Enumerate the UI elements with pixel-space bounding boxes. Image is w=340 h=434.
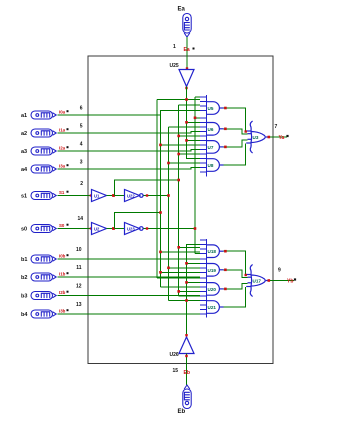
inverter U23 (select s0 stage 2) — [125, 223, 144, 235]
port Ea (input connector, top) — [183, 14, 191, 38]
svg-text:I3b: I3b — [59, 309, 66, 314]
wire bus V0 bottom connector to U20 — [157, 277, 200, 279]
junction U2 input pin — [90, 227, 92, 229]
wire connector Ea-bar to U6 — [187, 121, 200, 123]
wire Yb output — [268, 280, 294, 282]
wire U21 output to U17 input 4 — [224, 287, 246, 307]
net anchor dot I0a — [67, 110, 69, 112]
port b4 (data input) — [31, 310, 56, 318]
wire bus V4 top connector to U5 — [195, 96, 200, 98]
junction U1 input pin — [90, 194, 92, 196]
svg-text:5: 5 — [80, 124, 83, 130]
wire U2 output to U23 input — [107, 228, 125, 230]
wire connector V1 to U7 — [161, 144, 200, 146]
svg-text:3: 3 — [80, 160, 83, 166]
port a2 (data input) — [31, 129, 56, 137]
junction Eb-bar to U21 — [185, 299, 188, 302]
net anchor dot I3a — [67, 164, 69, 166]
svg-text:Ea: Ea — [178, 7, 186, 13]
wire connector V4 to U6 — [195, 117, 200, 119]
junction U18 output — [224, 250, 227, 253]
wire connector Eb-bar to U19 — [187, 262, 200, 264]
svg-text:Eb: Eb — [184, 370, 190, 376]
wire connector Eb-bar to U21 — [187, 300, 200, 302]
svg-text:9: 9 — [278, 268, 281, 274]
svg-text:10: 10 — [76, 247, 82, 253]
inverter U2 (select s0 stage 1) — [92, 223, 107, 235]
wire connector V3 to U18 — [179, 246, 200, 248]
svg-text:s0: s0 — [21, 227, 27, 233]
wire bus V1 vertical S0-bar — [160, 111, 162, 287]
junction V3 to U7 — [177, 135, 180, 138]
svg-text:4: 4 — [80, 142, 83, 148]
wire bus V4 vertical S1-bar — [194, 97, 196, 254]
svg-text:b3: b3 — [21, 294, 27, 300]
svg-text:a1: a1 — [21, 113, 27, 119]
junction U23 output pin — [146, 227, 148, 229]
wire bus Ea-bar vertical from U25 to gates — [187, 87, 200, 159]
port b1 (data input) — [31, 255, 56, 263]
port a1 (data input) — [31, 111, 56, 119]
svg-text:U17: U17 — [253, 279, 262, 284]
wire connector V1 to U18 — [161, 251, 200, 253]
junction U26 output pin — [185, 334, 187, 336]
net anchor dot I1a — [67, 128, 69, 130]
svg-text:U8: U8 — [208, 163, 214, 168]
junction V3 to U20b — [177, 290, 180, 293]
svg-text:Ya: Ya — [279, 135, 285, 141]
AND group a input bar — [206, 95, 208, 177]
junction S0 branch node — [112, 227, 115, 230]
svg-text:S1: S1 — [59, 190, 65, 195]
junction U19 output — [224, 269, 227, 272]
net anchor dot Yb — [294, 278, 296, 280]
svg-text:S0: S0 — [59, 223, 65, 228]
svg-text:11: 11 — [76, 265, 82, 271]
AND gate U18 — [207, 245, 224, 258]
AND gate U21 — [207, 301, 224, 314]
svg-text:U7: U7 — [208, 145, 214, 150]
junction S1 joins V2 — [167, 194, 170, 197]
junction U25 output pin — [185, 87, 187, 89]
svg-text:U20: U20 — [208, 287, 217, 292]
junction U17 input 1 pin — [245, 274, 247, 276]
svg-text:I1a: I1a — [59, 128, 66, 133]
svg-text:a2: a2 — [21, 131, 27, 137]
wire U18 output to U17 input 1 — [224, 251, 246, 275]
inverter U25 (enable a) — [179, 70, 194, 87]
wire I1a from port a2 to gate input — [58, 131, 200, 133]
OR gate U3 (output a) — [246, 121, 268, 153]
svg-text:U26: U26 — [170, 352, 179, 358]
wire U6 output to U3 input 2 — [224, 129, 248, 134]
AND gate U20 — [207, 283, 224, 296]
wire U5 output to U3 input 1 — [224, 108, 246, 132]
junction Ea-bar crosses V0 row — [185, 98, 188, 101]
junction Eb-bar to U20 — [185, 281, 188, 284]
wire I3a from port a4 to gate input — [58, 168, 200, 170]
AND gate U8 — [207, 159, 224, 172]
svg-text:I2b: I2b — [59, 290, 66, 295]
port b3 (data input) — [31, 292, 56, 300]
svg-text:12: 12 — [76, 284, 82, 290]
svg-text:I0b: I0b — [59, 254, 66, 259]
wire I0a from port a1 to gate input — [58, 111, 200, 116]
wire bus Eb-bar vertical from U26 up to gates — [187, 245, 200, 334]
AND gate U6 — [207, 123, 224, 136]
port a4 (data input) — [31, 165, 56, 173]
net anchor dot Ya — [286, 135, 288, 137]
svg-text:14: 14 — [77, 216, 83, 222]
wire I3b from port b4 to gate input — [58, 313, 200, 315]
net anchor dot S1 — [67, 191, 69, 193]
wire connector Eb-bar to U20 — [187, 281, 200, 283]
svg-text:15: 15 — [173, 368, 179, 374]
svg-text:b1: b1 — [21, 257, 27, 263]
junction Eb-bar to U19 — [185, 262, 188, 265]
junction S1-bar branch joins V3 — [177, 179, 180, 182]
svg-text:6: 6 — [80, 106, 83, 112]
junction V2 to U8 — [167, 162, 170, 165]
svg-text:Ea: Ea — [184, 47, 190, 53]
junction U3 input 1 pin — [245, 130, 247, 132]
schematic block boundary box — [88, 56, 273, 364]
svg-text:Eb: Eb — [178, 409, 186, 415]
svg-text:U19: U19 — [208, 268, 217, 273]
wire Ea from port down to U25 input — [186, 37, 188, 70]
svg-text:U2: U2 — [94, 226, 100, 231]
junction S0-bar branch joins V1 — [159, 211, 162, 214]
port b2 (data input) — [31, 273, 56, 281]
inverter U22 (select s1 stage 2) — [125, 190, 144, 202]
junction S0 joins V4 — [194, 227, 197, 230]
wire bus V2 top connector to U6 — [169, 126, 200, 128]
junction U26 input pin — [185, 355, 187, 357]
svg-text:U22: U22 — [127, 193, 135, 198]
wire U1 output to U22 input — [107, 195, 125, 197]
wire connector V1 to U19 — [161, 271, 200, 273]
junction U5 output — [224, 107, 227, 110]
AND gate U5 — [207, 102, 224, 115]
wire connector V3 to U8 — [179, 153, 200, 155]
svg-text:U25: U25 — [170, 63, 179, 69]
wire I0b from port b1 to gate input — [58, 258, 200, 260]
wire connector V2 to U19 — [169, 267, 200, 269]
wire U23 output right to bus V4 — [143, 228, 195, 230]
wire bus V2 vertical S0 — [168, 127, 170, 301]
junction V1 to U18 — [159, 251, 162, 254]
inverter U26 (enable b) — [179, 337, 194, 354]
wire Eb from U26 down to port — [186, 354, 188, 386]
wire bus V1 bottom connector to U20 — [161, 286, 200, 288]
net anchor dot Ea — [193, 48, 195, 50]
junction V3 to U18 — [177, 246, 180, 249]
gate input pin stubs group a — [200, 96, 207, 98]
wire I2a from port a3 to gate input — [58, 149, 200, 151]
OR gate U17 (output b) — [246, 265, 268, 297]
wire s1 from port to U1 — [58, 195, 92, 197]
wire bus V0 vertical — [156, 100, 158, 278]
svg-text:U23: U23 — [127, 226, 135, 231]
net anchor dot I3b — [67, 309, 69, 311]
svg-text:1: 1 — [173, 44, 176, 50]
net anchor dot I1b — [67, 272, 69, 274]
junction V4 to U6 — [194, 117, 197, 120]
net anchor dot I2b — [67, 291, 69, 293]
junction V3 to U8 — [177, 153, 180, 156]
wire bus V4 bottom connector to U18 — [195, 253, 200, 255]
svg-text:U6: U6 — [208, 127, 214, 132]
inverter U1 (select s1 stage 1) — [92, 190, 107, 202]
wire bus V3 vertical S1 — [178, 105, 180, 296]
junction V2 to U19 — [167, 267, 170, 270]
junction V1 to U19 — [159, 271, 162, 274]
svg-text:I0a: I0a — [59, 110, 66, 115]
net anchor dot I2a — [67, 146, 69, 148]
wire I1b from port b2 to gate input — [58, 276, 200, 278]
wire connector V3 to U7 — [179, 135, 200, 137]
wire bus V0 top connector to U5 — [157, 99, 200, 101]
wire U22 output right to bus V2 — [143, 195, 168, 197]
svg-text:7: 7 — [275, 124, 278, 130]
svg-text:U3: U3 — [253, 135, 259, 140]
svg-text:U18: U18 — [208, 249, 217, 254]
svg-text:a3: a3 — [21, 149, 27, 155]
junction U22 output pin — [146, 194, 148, 196]
port a3 (data input) — [31, 147, 56, 155]
port s1 (select input) — [31, 192, 56, 200]
wire connector V2 to U8 — [169, 162, 200, 164]
AND group b input bar — [206, 239, 208, 318]
wire U8 output to U3 input 4 — [224, 144, 246, 166]
svg-text:U1: U1 — [94, 193, 100, 198]
junction V1 to U7 — [159, 144, 162, 147]
svg-text:U5: U5 — [208, 106, 214, 111]
wire U20 output to U17 input 3 — [224, 283, 248, 289]
port s0 (select input) — [31, 225, 56, 233]
wire I2b from port b3 to gate input — [58, 295, 200, 297]
wire Ya output — [268, 136, 287, 138]
junction U7 output — [224, 146, 227, 149]
junction U17 output pin — [268, 279, 271, 282]
svg-text:b4: b4 — [21, 312, 28, 318]
wire connector V3 to U20b — [179, 290, 200, 292]
svg-text:13: 13 — [76, 302, 82, 308]
svg-text:Yb: Yb — [287, 279, 293, 285]
wire s0 from port to U2 — [58, 228, 92, 230]
svg-text:2: 2 — [80, 181, 83, 187]
wire bus V3 top connector to U5 — [179, 104, 200, 106]
svg-text:s1: s1 — [21, 194, 27, 200]
junction U20 output — [224, 288, 227, 291]
wire bus V2 bottom connector to U21 — [169, 300, 200, 302]
svg-text:I1b: I1b — [59, 272, 66, 277]
junction U25 input pin — [186, 67, 188, 69]
svg-text:U21: U21 — [208, 305, 217, 310]
svg-text:I3a: I3a — [59, 164, 66, 169]
junction Ea-bar to U7 — [185, 139, 188, 142]
wire U7 output to U3 input 3 — [224, 140, 248, 147]
wire bus V3 bottom connector to U21 — [179, 295, 200, 297]
junction Ea-bar to U6 — [185, 121, 188, 124]
svg-text:I2a: I2a — [59, 146, 66, 151]
port Eb (input connector, bottom) — [183, 385, 191, 409]
junction U6 output — [224, 128, 227, 131]
svg-text:a4: a4 — [21, 167, 28, 173]
junction S1 branch node — [112, 194, 115, 197]
wire connector Ea-bar to U7 — [187, 139, 200, 141]
wire S0-bar branch up and right to bus V1 — [115, 213, 161, 229]
svg-text:b2: b2 — [21, 275, 27, 281]
AND gate U7 — [207, 141, 224, 154]
junction U3 output pin — [268, 136, 271, 139]
net anchor dot S0 — [67, 224, 69, 226]
AND gate U19 — [207, 264, 224, 277]
wire U19 output to U17 input 2 — [224, 270, 248, 278]
gate input pin stubs group b — [200, 239, 207, 241]
wire S1-bar branch up and right to bus V3 — [115, 180, 179, 196]
net anchor dot I0b — [67, 254, 69, 256]
